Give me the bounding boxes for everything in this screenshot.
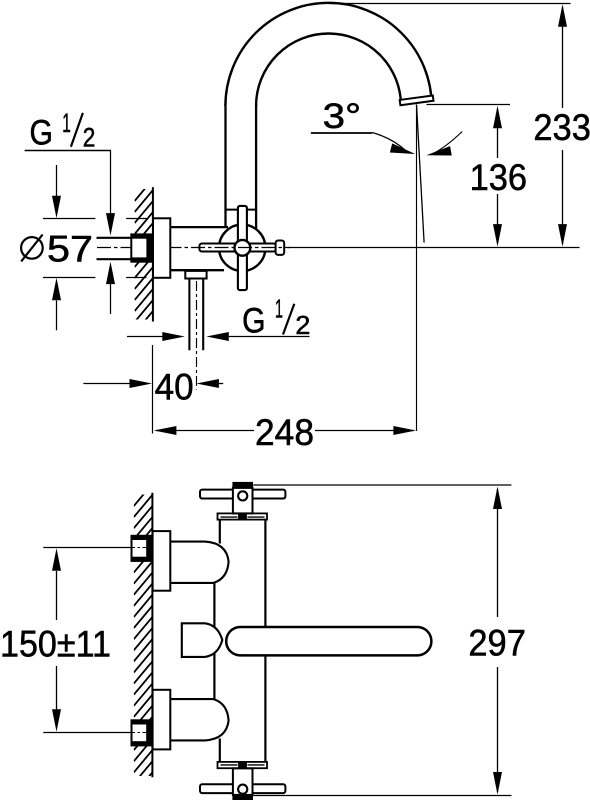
svg-text:G: G (242, 301, 265, 340)
svg-text:2: 2 (83, 123, 96, 153)
svg-text:233: 233 (533, 106, 590, 148)
svg-text:57: 57 (47, 227, 93, 269)
svg-text:1: 1 (275, 294, 283, 324)
svg-text:248: 248 (255, 411, 314, 453)
svg-text:1: 1 (62, 108, 71, 138)
svg-text:40: 40 (155, 366, 194, 408)
svg-text:150±11: 150±11 (0, 622, 111, 664)
svg-text:297: 297 (468, 621, 526, 663)
svg-text:2: 2 (295, 310, 310, 340)
svg-text:G: G (30, 114, 53, 153)
svg-text:136: 136 (470, 156, 527, 198)
svg-text:3°: 3° (323, 96, 362, 136)
